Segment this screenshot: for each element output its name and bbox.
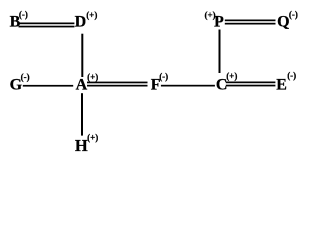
svg-text:(-): (-) [287,71,296,81]
wire C to P (vertical bond) [219,30,221,74]
svg-text:(-): (-) [19,10,28,20]
svg-text:A: A [76,77,88,94]
double bond A=F [87,82,148,84]
svg-text:D: D [75,14,87,31]
svg-text:(+): (+) [226,71,237,81]
double bond C=E [226,82,276,84]
svg-text:(+): (+) [86,10,97,20]
svg-text:(-): (-) [289,10,298,20]
single bond F-C [161,85,215,87]
single bond G-A [23,85,73,87]
svg-text:E: E [276,77,287,94]
svg-text:(+): (+) [87,72,98,82]
wire D to A (vertical bond) [81,34,83,77]
svg-text:(+): (+) [87,132,98,142]
svg-text:P: P [214,14,224,31]
double bond P=Q [225,20,276,22]
svg-text:H: H [75,136,88,155]
svg-text:Q: Q [277,14,289,31]
svg-text:(-): (-) [159,72,168,82]
double bond B=D [19,23,75,25]
svg-text:(-): (-) [21,72,30,82]
wire A to H (vertical bond) [81,93,83,135]
